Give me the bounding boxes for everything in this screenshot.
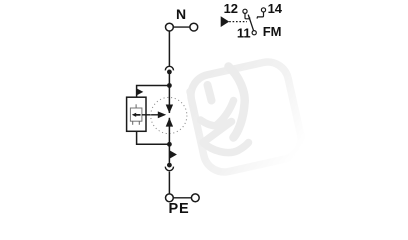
status indicator bottom pin 1 (132, 121, 134, 125)
svg-text:11: 11 (237, 25, 251, 40)
plug-in connection bottom socket arc (165, 167, 173, 171)
watermark logo frame (187, 58, 305, 176)
plug-in connection top pin ball (167, 70, 172, 75)
terminal N right circle (190, 23, 198, 31)
FM contact moving armature (248, 15, 253, 31)
watermark eye 1 (190, 92, 193, 103)
FM contact 12 fixed contact hook (245, 14, 250, 19)
svg-text:N: N (176, 6, 186, 22)
wire to PE terminal (168, 172, 170, 194)
watermark eye 2 (208, 85, 212, 101)
svg-text:FM: FM (263, 24, 282, 39)
monitoring arrow to spark gap (142, 114, 159, 116)
wire PE bridge (173, 197, 191, 199)
arrester direction flag on main line (170, 151, 177, 159)
svg-text:12: 12 (224, 1, 238, 16)
plug-in connection top socket arc (165, 66, 173, 70)
wire N down to plug (168, 31, 170, 66)
spark gap F1 dashed circle (151, 97, 187, 133)
watermark mouth zigzag (201, 120, 249, 153)
wire N bridge (173, 26, 190, 28)
FM contact 12 terminal circle (243, 9, 247, 13)
status indicator inner square (130, 108, 142, 121)
terminal N left circle (166, 23, 174, 31)
wire box bottom to junction B (137, 131, 170, 144)
terminal PE left circle (166, 194, 174, 202)
watermark crescent stroke (229, 67, 245, 138)
FM actuator dashed link (229, 21, 247, 23)
spark gap upper electrode (166, 105, 173, 114)
FM contact 14 fixed contact hook (257, 12, 264, 19)
svg-text:14: 14 (268, 1, 283, 16)
watermark inner curl (216, 101, 234, 127)
terminal PE right circle (191, 194, 199, 202)
FM contact 11 terminal circle (252, 31, 256, 35)
node junction A (167, 83, 172, 88)
svg-text:PE: PE (169, 201, 190, 217)
status indicator top pin (135, 104, 137, 108)
FM contact 14 terminal circle (261, 8, 265, 12)
arrester direction flag on branch (137, 88, 144, 95)
status indicator arrow symbol (132, 113, 141, 117)
monitoring device box U1 (127, 97, 146, 131)
wire plug to junction A (168, 72, 170, 113)
FM actuator triangle (221, 16, 230, 27)
status indicator bottom pin 2 (138, 121, 140, 125)
node junction B (167, 142, 172, 147)
spark gap lower electrode (166, 118, 173, 127)
wire junction B down (168, 118, 170, 163)
plug-in connection bottom pin ball (167, 163, 172, 168)
wire branch top horizontal (137, 86, 170, 98)
